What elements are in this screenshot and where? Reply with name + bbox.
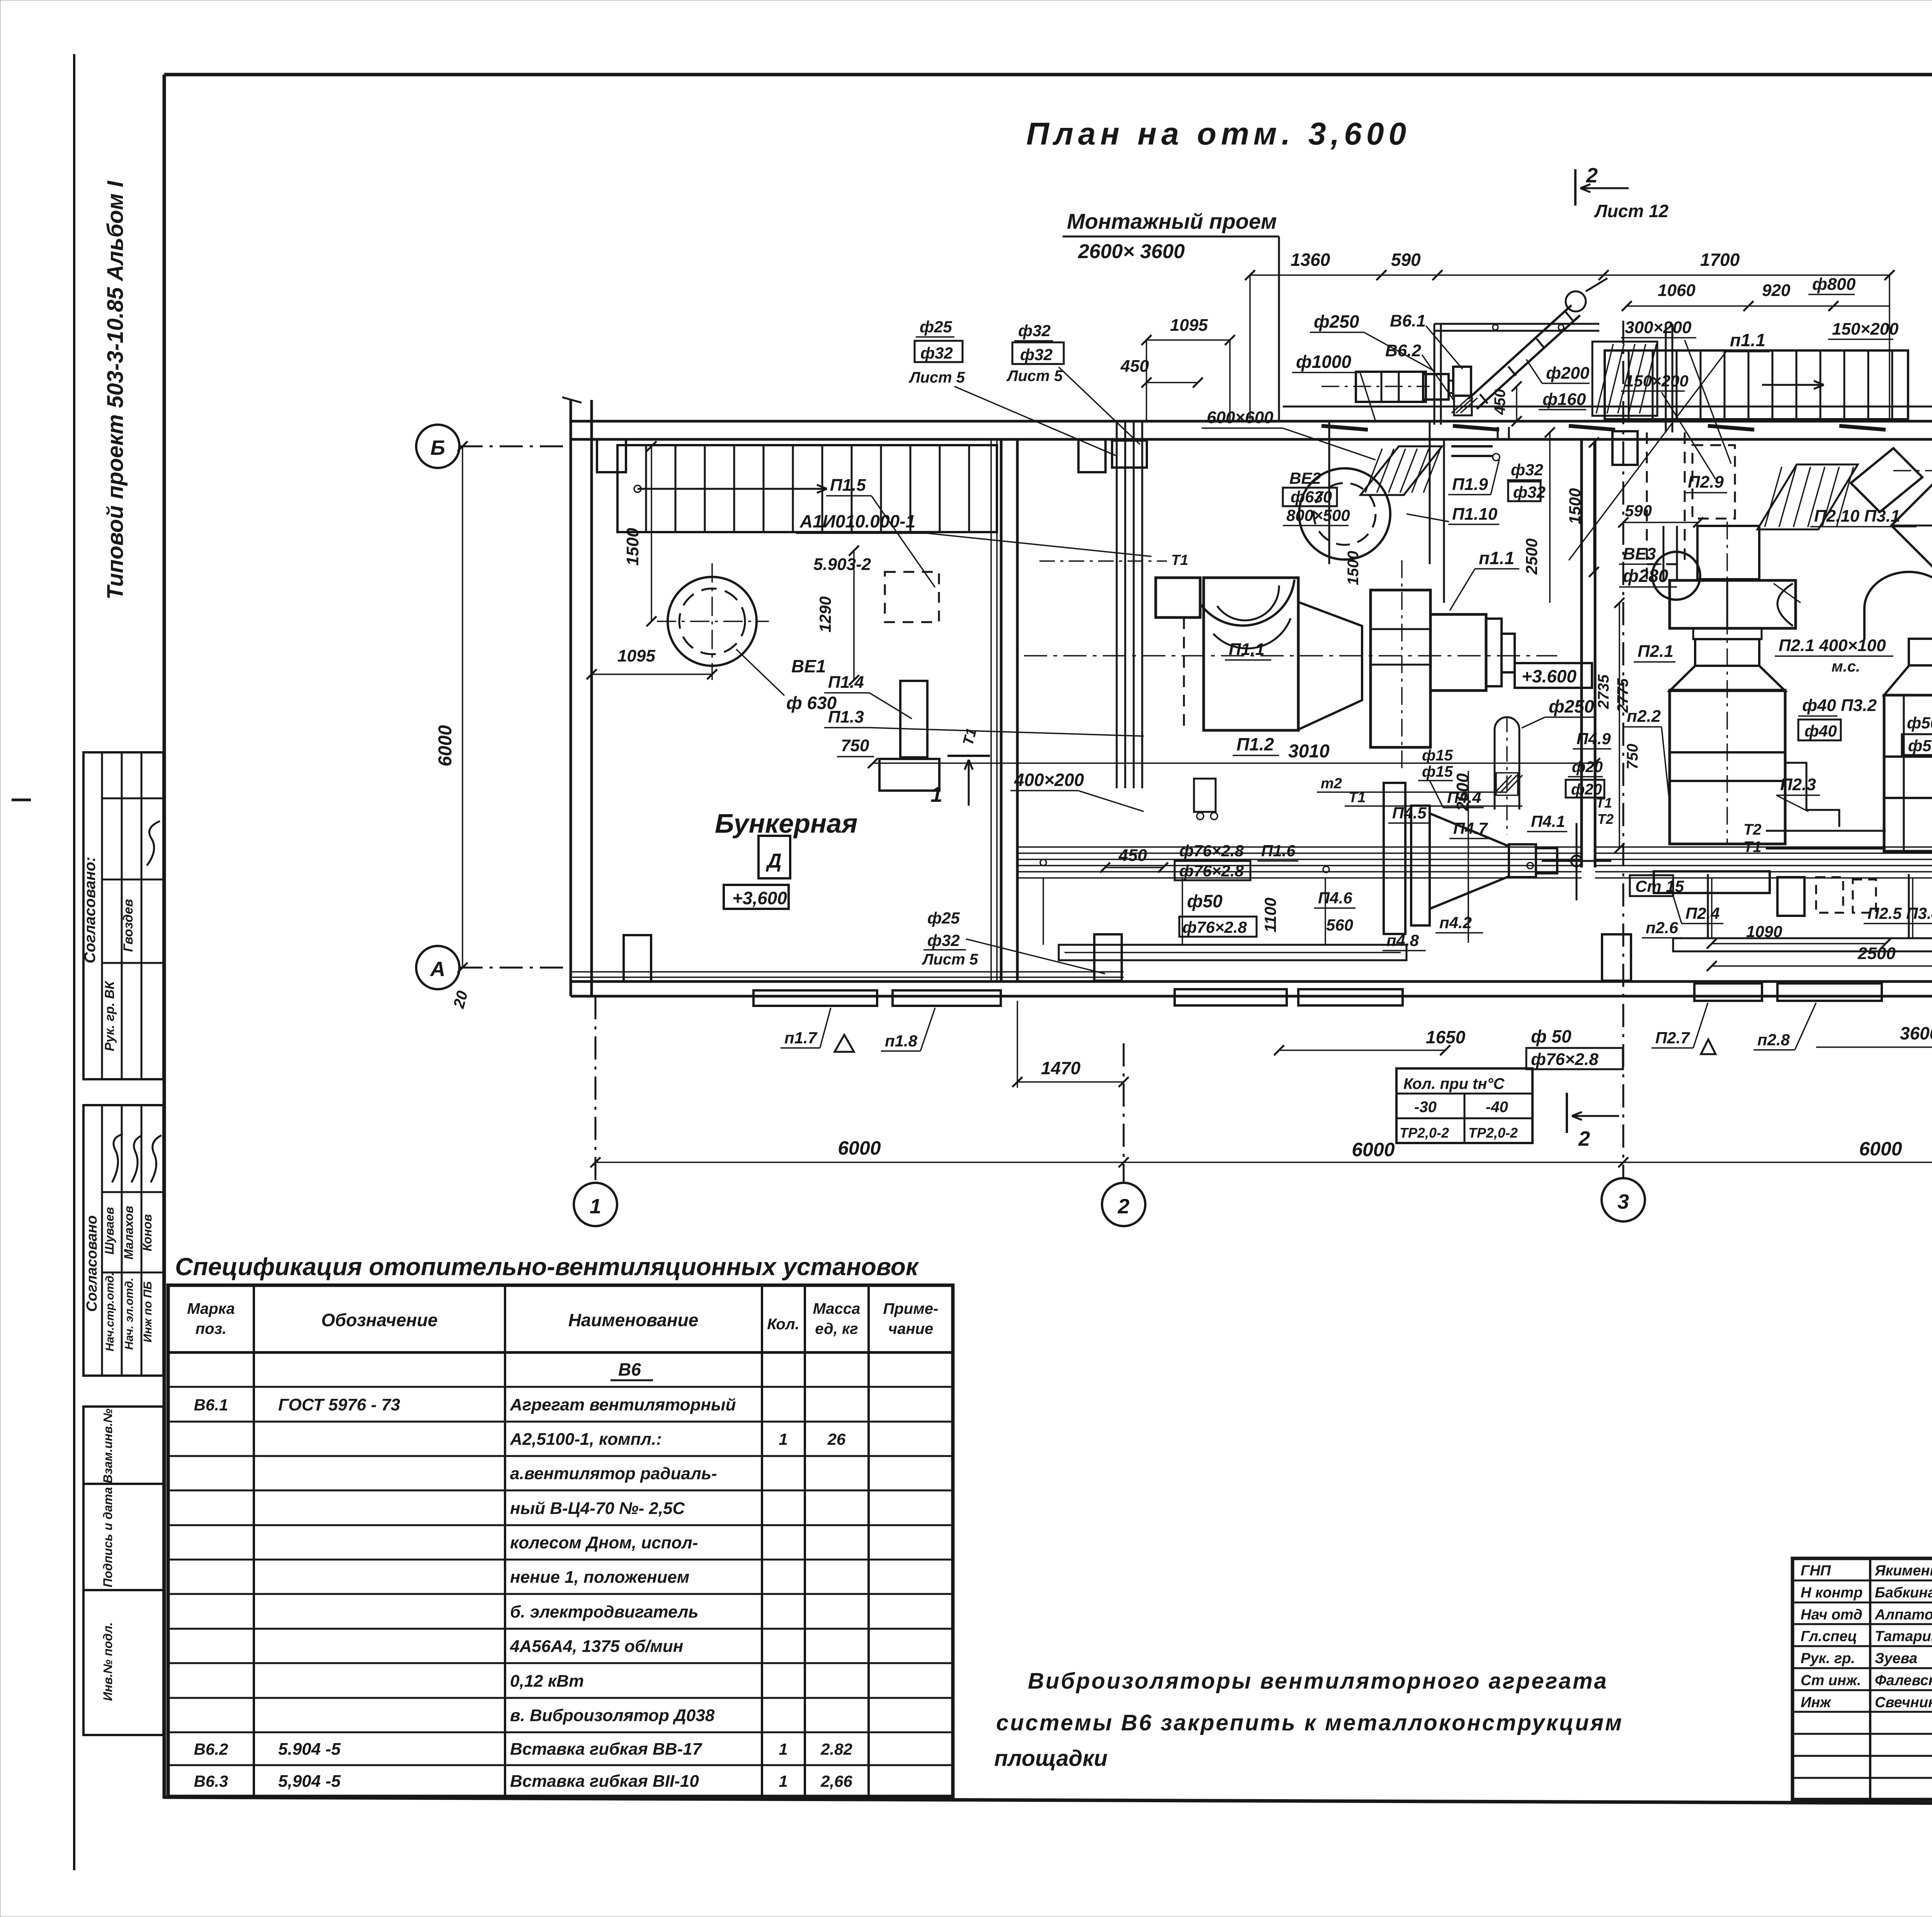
svg-text:ф15: ф15 (1422, 747, 1453, 764)
Kol pri table (1396, 1068, 1532, 1143)
scan edge line left (73, 54, 75, 1870)
P2 column A upper duct (1697, 526, 1759, 579)
svg-text:+3.600: +3.600 (1522, 666, 1577, 686)
small fitting (1194, 779, 1216, 812)
fan V6.1 unit (1453, 367, 1471, 396)
svg-text:590: 590 (1391, 250, 1421, 270)
svg-text:Татаринов: Татаринов (1875, 1628, 1932, 1645)
svg-text:ф25: ф25 (927, 909, 960, 927)
svg-text:Виброизоляторы вентиляторно: Виброизоляторы вентиляторного агрегата (1028, 1669, 1608, 1694)
duct edge vertical (1443, 439, 1445, 603)
svg-text:ф800: ф800 (1812, 275, 1856, 294)
svg-text:П4.1: П4.1 (1531, 812, 1565, 830)
svg-text:ф25: ф25 (920, 318, 952, 336)
slabs under bottom wall (753, 990, 877, 1006)
svg-text:Спецификация отопительно-венти: Спецификация отопительно-вентиляционных … (175, 1253, 920, 1281)
svg-text:ф40 П3.2: ф40 П3.2 (1802, 696, 1877, 715)
svg-text:Свечникова: Свечникова (1875, 1694, 1932, 1711)
svg-text:1100: 1100 (1261, 898, 1279, 932)
spec table grid (168, 1285, 953, 1796)
svg-text:чание: чание (888, 1320, 933, 1337)
svg-text:ВЕ3: ВЕ3 (1623, 544, 1656, 563)
svg-text:Бабкина: Бабкина (1875, 1585, 1932, 1601)
svg-text:Нач.стр.отд.: Нач.стр.отд. (104, 1272, 116, 1352)
svg-text:400×200: 400×200 (1014, 770, 1084, 790)
svg-text:450: 450 (1118, 846, 1147, 865)
svg-text:ф40: ф40 (1804, 722, 1837, 740)
svg-text:ф50: ф50 (1187, 891, 1223, 911)
svg-text:5,904 -5: 5,904 -5 (278, 1772, 341, 1791)
svg-text:1: 1 (590, 1195, 601, 1218)
svg-text:1650: 1650 (1426, 1027, 1466, 1047)
svg-text:П2.7: П2.7 (1655, 1029, 1690, 1047)
svg-text:590: 590 (1625, 502, 1652, 520)
svg-text:750: 750 (841, 736, 869, 755)
dim 1095 top (1146, 339, 1230, 341)
svg-text:6000: 6000 (1352, 1139, 1395, 1160)
interior wall 1 (1000, 439, 1003, 981)
svg-text:600×600: 600×600 (1207, 408, 1274, 427)
wall bottom (double) (571, 980, 1932, 983)
risers at interior wall (990, 439, 992, 981)
svg-text:ф50: ф50 (1907, 714, 1932, 732)
svg-text:ф76×2.8: ф76×2.8 (1182, 918, 1247, 936)
VE3 circle (1652, 552, 1700, 600)
svg-text:П4.9: П4.9 (1577, 730, 1611, 748)
svg-text:П1.2: П1.2 (1236, 734, 1274, 754)
svg-text:Фалевская: Фалевская (1875, 1672, 1932, 1689)
svg-text:Вставка гибкая ВII-10: Вставка гибкая ВII-10 (510, 1772, 699, 1791)
svg-text:Взам.инв.№: Взам.инв.№ (101, 1408, 115, 1483)
svg-text:26: 26 (827, 1430, 846, 1448)
svg-text:3600: 3600 (1900, 1023, 1932, 1043)
dim chain 1060 920 f800 (1627, 305, 1889, 307)
svg-text:Т1: Т1 (1171, 552, 1188, 568)
section mark 2 bottom (1566, 1093, 1568, 1133)
svg-text:2: 2 (1117, 1195, 1129, 1218)
svg-text:ф32: ф32 (1511, 461, 1543, 479)
svg-text:Обозначение: Обозначение (321, 1310, 437, 1330)
svg-text:Зуева: Зуева (1875, 1650, 1917, 1667)
horizontal duct to fan (1356, 372, 1426, 402)
svg-text:Инж по ПБ: Инж по ПБ (141, 1281, 154, 1342)
svg-text:б. электродвигатель: б. электродвигатель (510, 1602, 698, 1621)
svg-text:3010: 3010 (1288, 741, 1330, 762)
svg-text:В6.2: В6.2 (194, 1740, 228, 1758)
svg-text:Лист 5: Лист 5 (908, 369, 965, 386)
axis 3 long (1622, 321, 1624, 1178)
P2.4 bar and fittings (1654, 871, 1770, 893)
svg-text:П2.5 П3.4: П2.5 П3.4 (1867, 904, 1932, 922)
beam hatch dashes (1321, 426, 1368, 430)
svg-text:п4.2: п4.2 (1439, 913, 1472, 932)
vertical pipes from fan (1497, 427, 1499, 439)
riser pair right (1665, 324, 1667, 432)
svg-text:системы В6 закрепить к м: системы В6 закрепить к металлоконструкци… (996, 1710, 1623, 1735)
P2 column A bell box (1670, 580, 1796, 628)
svg-text:ВЕ1: ВЕ1 (791, 656, 826, 676)
svg-text:нение 1, положением: нение 1, положением (510, 1568, 689, 1587)
svg-text:П2.3: П2.3 (1780, 775, 1816, 794)
svg-text:1: 1 (779, 1772, 787, 1790)
svg-text:150×200: 150×200 (1625, 372, 1689, 390)
svg-text:1095: 1095 (1170, 316, 1208, 335)
svg-text:Д: Д (765, 850, 782, 872)
standpipe f250 (1495, 717, 1519, 810)
title block outer (1793, 1558, 1932, 1800)
svg-text:1095: 1095 (617, 646, 655, 665)
hatched dampers right (1757, 464, 1858, 529)
machine axis dash-dot (1024, 655, 1557, 657)
sidebar signature squiggles 2 (112, 1134, 123, 1182)
svg-text:Согласовано: Согласовано (84, 1215, 100, 1312)
svg-text:ф20: ф20 (1572, 759, 1603, 776)
svg-text:Нач. эл.отд.: Нач. эл.отд. (123, 1278, 136, 1350)
P1.9 grille bars (1451, 445, 1493, 447)
P2 column A neck (1693, 628, 1762, 639)
axis dash through diamond (1893, 470, 1932, 471)
St15 box (1630, 875, 1673, 896)
beam line above right half (1283, 406, 1932, 408)
svg-text:Лист 12: Лист 12 (1594, 201, 1669, 221)
svg-text:ф32: ф32 (1020, 345, 1053, 364)
svg-text:т2: т2 (1321, 776, 1342, 792)
svg-text:1470: 1470 (1041, 1058, 1081, 1078)
section mark 1 left (947, 755, 990, 757)
axis A (459, 967, 571, 969)
svg-text:+3,600: +3,600 (732, 888, 787, 908)
svg-text:2,66: 2,66 (820, 1772, 852, 1790)
svg-text:П2.9: П2.9 (1688, 473, 1724, 492)
svg-text:Типовой проект 503-3-10.85 А: Типовой проект 503-3-10.85 Альбом I (103, 180, 128, 599)
level mark +3,600 left (724, 885, 789, 909)
svg-text:6000: 6000 (838, 1137, 881, 1159)
svg-text:2: 2 (1578, 1127, 1590, 1150)
svg-text:ф32: ф32 (920, 344, 953, 362)
axis vertical dim 6000 (462, 446, 463, 968)
sidebar box 1 soglasovano (83, 752, 163, 1079)
svg-text:ТР2,0-2: ТР2,0-2 (1400, 1125, 1449, 1141)
machine row left post (1156, 578, 1200, 617)
sidebar signature squiggle 1 (147, 821, 160, 866)
axis 2 (1123, 1043, 1125, 1183)
wall pilasters (597, 439, 626, 472)
svg-text:Т1: Т1 (1349, 789, 1366, 806)
svg-text:Инв.№ подл.: Инв.№ подл. (101, 1622, 115, 1701)
svg-text:П2.10 П3.1: П2.10 П3.1 (1814, 507, 1900, 526)
stair right treads (1605, 350, 1908, 419)
svg-text:ед, кг: ед, кг (815, 1320, 858, 1337)
svg-text:2735: 2735 (1595, 674, 1612, 709)
svg-text:750: 750 (1624, 744, 1641, 770)
svg-text:п2.6: п2.6 (1646, 919, 1679, 937)
svg-text:1290: 1290 (816, 596, 834, 632)
svg-text:Подпись и дата: Подпись и дата (101, 1487, 115, 1587)
svg-text:ф1000: ф1000 (1296, 352, 1351, 372)
svg-text:800×500: 800×500 (1286, 506, 1350, 524)
svg-text:П1.5: П1.5 (830, 476, 866, 495)
supply duct left post (1328, 421, 1330, 564)
svg-text:п4.8: п4.8 (1386, 931, 1419, 949)
svg-text:1500: 1500 (1566, 488, 1584, 524)
cross pipe (1576, 823, 1578, 900)
svg-text:Агрегат вентиляторный: Агрегат вентиляторный (510, 1395, 736, 1414)
svg-text:560: 560 (1326, 916, 1353, 934)
svg-text:Т2: Т2 (1743, 821, 1762, 838)
diamond duct P2.10 P3.1 (1891, 460, 1932, 591)
elbow pipe right of body (1785, 763, 1839, 827)
top duct f250 (1434, 323, 1599, 325)
pipe bundle verticals (1043, 878, 1044, 945)
svg-text:ф50: ф50 (1908, 737, 1932, 755)
svg-text:Бункерная: Бункерная (715, 808, 857, 839)
svg-text:в. Виброизолятор Д038: в. Виброизолятор Д038 (510, 1706, 715, 1725)
sidebar box 2 soglasovano (83, 1105, 163, 1376)
svg-text:2.82: 2.82 (820, 1740, 852, 1758)
svg-text:П1.6: П1.6 (1261, 842, 1296, 860)
flex insert V6.2 hatched (1454, 396, 1472, 415)
hatched damper P1 (1361, 446, 1442, 495)
svg-text:1060: 1060 (1658, 281, 1696, 300)
P3 column body (1884, 695, 1932, 851)
svg-text:Шуваев: Шуваев (102, 1207, 116, 1255)
svg-text:Алпатов: Алпатов (1874, 1607, 1932, 1623)
svg-text:А1И010.000-1: А1И010.000-1 (799, 511, 915, 531)
svg-text:П1.3: П1.3 (828, 708, 864, 726)
svg-text:Масса: Масса (813, 1300, 861, 1317)
title block left sign table (1793, 1580, 1932, 1582)
svg-text:2500: 2500 (1857, 944, 1896, 963)
stair left treads (617, 445, 997, 532)
svg-text:1: 1 (779, 1430, 787, 1448)
svg-text:Ст инж.: Ст инж. (1801, 1672, 1861, 1689)
svg-text:5.903-2: 5.903-2 (813, 555, 871, 574)
svg-text:поз.: поз. (196, 1320, 226, 1337)
svg-text:Т1: Т1 (1596, 795, 1612, 811)
svg-text:П2.4: П2.4 (1685, 904, 1720, 922)
svg-text:6000: 6000 (435, 725, 456, 766)
dim 2500 vertical (1549, 432, 1551, 603)
svg-text:3: 3 (1617, 1190, 1629, 1213)
svg-text:ф630: ф630 (1291, 488, 1332, 506)
svg-text:Вставка гибкая ВВ-17: Вставка гибкая ВВ-17 (510, 1740, 703, 1759)
svg-text:Рук. гр.: Рук. гр. (1801, 1650, 1855, 1667)
svg-text:П2.1: П2.1 (1638, 642, 1673, 661)
svg-text:300×200: 300×200 (1625, 318, 1692, 337)
svg-text:П4.6: П4.6 (1318, 889, 1352, 907)
svg-text:ТР2,0-2: ТР2,0-2 (1468, 1125, 1518, 1141)
dim 1500 left (651, 446, 652, 621)
bottom dim chain 6000x3 (595, 1162, 1932, 1163)
svg-text:План на отм. 3,600: План на отм. 3,600 (1026, 116, 1411, 151)
dim chain 1360 590 1700 (1250, 274, 1889, 276)
svg-text:2775: 2775 (1614, 678, 1631, 713)
svg-text:1500: 1500 (623, 528, 642, 566)
svg-text:п2.8: п2.8 (1757, 1031, 1790, 1049)
svg-text:Конов: Конов (140, 1214, 154, 1251)
svg-text:П1.1: П1.1 (1229, 640, 1265, 659)
svg-text:Кол. при tн°С: Кол. при tн°С (1403, 1075, 1505, 1092)
svg-text:П4.7: П4.7 (1453, 819, 1488, 837)
svg-text:п1.8: п1.8 (885, 1032, 918, 1050)
svg-text:А: А (430, 958, 446, 981)
svg-text:Рук. гр. ВК: Рук. гр. ВК (102, 980, 117, 1051)
svg-text:2500: 2500 (1522, 538, 1541, 575)
P2 column A body (1670, 690, 1785, 844)
svg-text:п1.7: п1.7 (784, 1029, 818, 1047)
svg-text:ГНП: ГНП (1801, 1563, 1831, 1579)
svg-text:-40: -40 (1486, 1099, 1508, 1116)
svg-text:площадки: площадки (994, 1746, 1107, 1771)
door mark D (759, 836, 790, 878)
sheet frame border (164, 73, 1932, 77)
svg-text:В6.3: В6.3 (194, 1772, 228, 1790)
svg-text:6000: 6000 (1859, 1138, 1902, 1160)
pipe bundle horizontal (1019, 846, 1582, 848)
svg-text:п2.2: п2.2 (1627, 707, 1661, 726)
svg-text:П1.9: П1.9 (1452, 475, 1488, 494)
svg-text:150×200: 150×200 (1832, 320, 1899, 338)
svg-text:п1.1: п1.1 (1730, 330, 1765, 350)
svg-text:ный В-Ц4-70 №- 2,5С: ный В-Ц4-70 №- 2,5С (510, 1499, 685, 1518)
svg-text:Согласовано:: Согласовано: (82, 857, 99, 963)
fan VE1 circle (668, 577, 757, 666)
dim 1470 (1017, 1081, 1124, 1083)
svg-text:ф280: ф280 (1623, 566, 1668, 586)
svg-text:Марка: Марка (187, 1300, 235, 1317)
svg-text:В6.1: В6.1 (1390, 311, 1426, 330)
P2.9 inlet rect on wall (1612, 431, 1638, 465)
riser bundle second room (1116, 421, 1118, 788)
svg-text:ф160: ф160 (1543, 390, 1586, 409)
svg-text:0,12 кВт: 0,12 кВт (510, 1672, 584, 1691)
svg-text:Малахов: Малахов (122, 1206, 136, 1260)
svg-text:ф32: ф32 (1018, 321, 1051, 340)
svg-text:м.с.: м.с. (1832, 658, 1860, 675)
svg-text:450: 450 (1492, 389, 1509, 415)
trench rects (1059, 945, 1406, 960)
svg-text:ГОСТ 5976 - 73: ГОСТ 5976 - 73 (278, 1395, 400, 1414)
svg-text:ф250: ф250 (1549, 696, 1594, 716)
svg-text:ф200: ф200 (1546, 364, 1590, 383)
svg-text:а.вентилятор радиаль-: а.вентилятор радиаль- (510, 1464, 717, 1483)
svg-text:П2.1 400×100: П2.1 400×100 (1779, 636, 1886, 655)
svg-text:ф76×2.8: ф76×2.8 (1531, 1050, 1599, 1069)
interior wall 2 (1580, 439, 1583, 867)
svg-text:Лист 5: Лист 5 (1006, 367, 1063, 384)
dashed supply duct P2.9 (1646, 432, 1648, 580)
svg-text:Нач отд: Нач отд (1801, 1607, 1862, 1623)
svg-text:450: 450 (1120, 357, 1149, 376)
svg-text:В6.1: В6.1 (194, 1396, 228, 1414)
P2-P3 column B bell (1864, 572, 1932, 640)
dim 1095 left (592, 674, 712, 675)
fan scroll arcs (1201, 580, 1294, 626)
svg-text:Якименко: Якименко (1874, 1563, 1932, 1579)
svg-text:Т1: Т1 (1743, 839, 1762, 856)
axis 1 (595, 996, 597, 1183)
dim line 3010 (873, 762, 1595, 764)
svg-text:п1.1: п1.1 (1479, 548, 1514, 568)
svg-text:ВЕ2: ВЕ2 (1289, 469, 1321, 487)
svg-text:1700: 1700 (1700, 250, 1740, 270)
svg-text:П4.4: П4.4 (1447, 788, 1481, 806)
svg-text:ф15: ф15 (1422, 763, 1453, 780)
svg-text:ф 50: ф 50 (1531, 1026, 1571, 1046)
svg-text:-30: -30 (1414, 1099, 1437, 1116)
dashed unit P1.5 (885, 572, 939, 622)
svg-text:А2,5100-1, компл.:: А2,5100-1, компл.: (510, 1430, 662, 1449)
svg-text:ф76×2.8: ф76×2.8 (1179, 862, 1244, 880)
section mark 2 top (1574, 169, 1577, 206)
svg-text:В6.2: В6.2 (1385, 341, 1421, 360)
svg-text:1: 1 (779, 1740, 787, 1758)
svg-text:920: 920 (1762, 281, 1791, 300)
svg-text:Б: Б (430, 436, 445, 459)
svg-text:Лист 5: Лист 5 (922, 951, 978, 968)
svg-text:колесом Дном, испол-: колесом Дном, испол- (510, 1533, 698, 1552)
funnel slabs (1384, 783, 1405, 934)
elbow duct to diamond (1851, 448, 1922, 512)
svg-text:1360: 1360 (1291, 250, 1330, 270)
svg-text:В6: В6 (618, 1359, 641, 1379)
svg-text:Кол.: Кол. (767, 1316, 799, 1333)
wall top (double) (571, 420, 1932, 423)
svg-text:ф76×2.8: ф76×2.8 (1179, 842, 1244, 860)
sidebar cells vzam/podpis/inv (83, 1407, 163, 1484)
svg-text:Н контр: Н контр (1801, 1585, 1862, 1601)
level box +3.600 (1515, 663, 1592, 688)
svg-text:2: 2 (1586, 164, 1598, 187)
svg-text:Приме-: Приме- (883, 1300, 939, 1317)
svg-text:Гл.спец: Гл.спец (1801, 1628, 1857, 1645)
funnel cone P4 (1430, 813, 1509, 909)
svg-text:ф32: ф32 (927, 931, 960, 949)
svg-text:ф32: ф32 (1513, 483, 1546, 501)
svg-text:Т2: Т2 (1597, 811, 1614, 827)
pipes along bottom left (572, 971, 1124, 973)
svg-text:П1.10: П1.10 (1452, 505, 1498, 524)
svg-text:5.904 -5: 5.904 -5 (278, 1740, 341, 1759)
wall left (double) (570, 400, 572, 996)
svg-text:1500: 1500 (1345, 551, 1362, 585)
triangles (835, 1035, 854, 1052)
svg-text:2600× 3600: 2600× 3600 (1078, 240, 1185, 263)
svg-text:Наименование: Наименование (568, 1310, 699, 1330)
svg-text:Монтажный проем: Монтажный проем (1067, 209, 1277, 233)
dim 450 top (1146, 382, 1198, 383)
svg-text:1: 1 (930, 782, 942, 806)
svg-text:4А56А4, 1375 об/мин: 4А56А4, 1375 об/мин (510, 1637, 683, 1656)
VE2 scroll circle (1299, 468, 1390, 560)
hatched panel near right stair (1592, 342, 1657, 416)
svg-text:Гвоздев: Гвоздев (121, 899, 136, 952)
axis B (459, 446, 571, 447)
svg-text:Инж: Инж (1801, 1694, 1832, 1711)
risers to wall bottom (1707, 874, 1709, 938)
dim 1290 (853, 551, 855, 680)
svg-text:ф250: ф250 (1314, 311, 1359, 332)
flex duct diagonal f200 (1468, 305, 1571, 399)
svg-text:1090: 1090 (1746, 922, 1782, 941)
